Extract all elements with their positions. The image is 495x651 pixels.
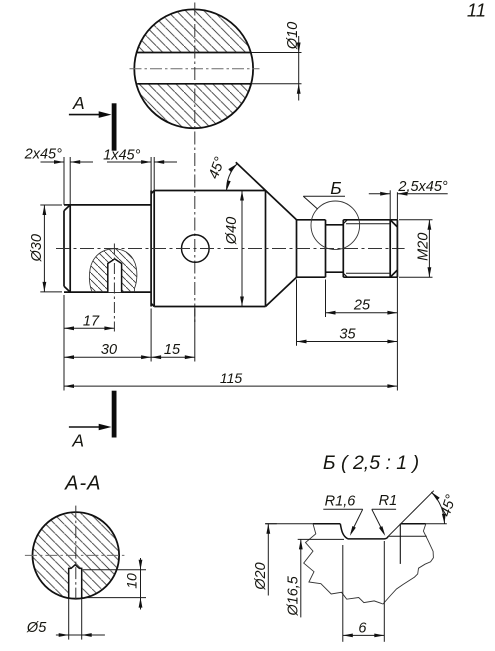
hole d5 slot white	[69, 565, 82, 599]
thread root bottom thin line	[346, 272, 390, 274]
dim 2x45: extension lines	[63, 157, 65, 205]
dim 35	[297, 341, 398, 343]
groove bottom surface	[326, 271, 344, 273]
d40 top edge	[154, 190, 265, 192]
groove right wall / thread start	[342, 220, 344, 277]
thread full-depth boundary	[399, 524, 401, 564]
R1 leader	[372, 508, 396, 510]
extension line step down	[150, 309, 152, 362]
svg-text:30: 30	[101, 342, 117, 358]
shaft end circle	[134, 9, 253, 128]
left end face	[63, 211, 65, 287]
chamfer 2x45 edge line	[69, 205, 71, 292]
dim d30 line	[43, 205, 45, 292]
svg-text:17: 17	[83, 313, 100, 329]
view arrow top	[69, 114, 101, 116]
chamfer 2x45 bottom diagonal	[64, 286, 70, 292]
groove top surface	[326, 224, 344, 226]
dim 25	[326, 312, 398, 314]
svg-text:11: 11	[467, 0, 486, 21]
chamfer 45 line extended	[388, 491, 434, 537]
hatch upper	[134, 9, 255, 52]
hole d5 slot outline	[69, 565, 82, 598]
main axis center line	[56, 248, 405, 250]
dim 17	[64, 327, 114, 329]
svg-text:Ø30: Ø30	[29, 234, 45, 262]
svg-text:A: A	[72, 93, 85, 113]
top surface left (d20)	[313, 523, 340, 525]
hole d5 white	[108, 259, 122, 292]
d20 dim extension thin part	[265, 523, 313, 525]
hatch A-A	[32, 512, 120, 600]
dim 15	[151, 356, 195, 358]
d20 bottom edge	[297, 276, 326, 278]
d40 bottom edge	[154, 306, 265, 308]
cutting plane thick stroke top	[112, 103, 117, 150]
thread crest top	[343, 219, 397, 221]
dim M20 extension lines	[399, 219, 433, 221]
cone small end edge	[296, 220, 298, 277]
thread end face	[396, 220, 398, 277]
detail circle B	[311, 201, 360, 250]
dim d16,5 line	[300, 539, 302, 617]
hatch of broken-out section	[86, 246, 140, 293]
thread crest bottom	[343, 276, 397, 278]
svg-text:R1: R1	[379, 493, 398, 509]
center line vertical shared	[194, 3, 196, 326]
hole d5 projection lines	[68, 598, 70, 639]
dim 45 arc detail	[431, 492, 444, 524]
dim 30	[64, 356, 151, 358]
svg-text:2,5x45°: 2,5x45°	[397, 179, 448, 195]
thread root top thin line	[346, 223, 390, 225]
d20 top edge	[297, 219, 326, 221]
thread end chamfer bottom diagonal	[390, 270, 397, 277]
hole edge upper	[137, 52, 251, 54]
dim 1x45 extension lines	[150, 157, 152, 191]
thread start chamfer top diagonal	[343, 220, 347, 224]
chamfer 2x45 top diagonal	[64, 205, 70, 211]
thread end chamfer top diagonal	[390, 220, 397, 227]
dim M20 line	[428, 220, 430, 277]
chamfer 1x45 edge line	[153, 191, 155, 307]
svg-text:Б ( 2,5 : 1 ): Б ( 2,5 : 1 )	[323, 452, 419, 474]
svg-text:1x45°: 1x45°	[103, 147, 140, 163]
dim d5 line	[56, 634, 105, 636]
svg-text:45°: 45°	[206, 155, 229, 181]
center line A-A horizontal	[25, 554, 127, 556]
break line blob	[89, 249, 137, 292]
groove left fillet R1,6	[340, 524, 348, 539]
dim 2,5x45 extension lines	[389, 190, 391, 220]
svg-text:2x45°: 2x45°	[24, 147, 62, 163]
thread start chamfer bottom diagonal	[343, 273, 347, 277]
svg-text:35: 35	[339, 326, 356, 342]
hole d5 outline	[108, 259, 122, 292]
hatch lower	[134, 84, 255, 129]
dim d10 line	[298, 36, 300, 101]
dim d20 extension	[265, 523, 277, 525]
svg-text:Ø5: Ø5	[26, 620, 47, 636]
center line horizontal top view	[130, 68, 260, 70]
svg-text:Б: Б	[330, 178, 341, 198]
dim d40 line	[241, 191, 243, 307]
svg-text:115: 115	[220, 370, 243, 386]
chamfer 1x45 top diagonal	[151, 191, 154, 194]
svg-text:10: 10	[123, 573, 139, 589]
dim 6 extension lines	[342, 545, 344, 642]
groove right fillet R1	[385, 536, 389, 539]
d30 bottom edge	[64, 291, 151, 293]
section circle A-A	[33, 512, 120, 599]
d30 top edge	[64, 204, 151, 206]
label B leader	[303, 195, 345, 197]
hole edge lower	[137, 83, 251, 85]
dim 10 line	[140, 558, 142, 610]
crest line right	[401, 523, 426, 525]
dim 45 arc	[227, 164, 238, 191]
thread end chamfer edge	[389, 220, 391, 277]
center line A-A vertical	[75, 506, 77, 602]
dim 115	[64, 385, 397, 387]
extension line lower	[252, 83, 302, 85]
svg-text:15: 15	[164, 342, 181, 358]
surface hole d10 circle on d40	[182, 235, 210, 263]
hole d5 center line	[113, 244, 115, 332]
dim 10 extension lines	[83, 569, 146, 571]
svg-text:6: 6	[358, 621, 367, 637]
svg-text:A-A: A-A	[64, 473, 101, 495]
svg-text:Ø40: Ø40	[224, 217, 240, 245]
dim 6 line	[343, 634, 385, 636]
dim 1x45 arrows	[107, 161, 151, 163]
svg-text:45°: 45°	[438, 493, 460, 519]
cone bottom line	[266, 277, 297, 306]
dim d16,5 extension	[298, 538, 344, 540]
dim 2x45 arrows	[41, 161, 65, 163]
svg-text:25: 25	[353, 298, 371, 314]
crest extension right for 45 arc	[426, 523, 447, 525]
extension line left end down	[63, 295, 65, 391]
view arrow bottom	[69, 426, 101, 428]
break line freehand	[304, 524, 434, 604]
groove bottom	[348, 538, 385, 540]
svg-text:M20: M20	[415, 233, 431, 261]
thread root line detail	[388, 535, 427, 537]
step face d30/d40	[150, 191, 152, 307]
R1,6 leader	[323, 508, 362, 510]
extension line groove down	[325, 280, 327, 318]
svg-text:Ø10: Ø10	[285, 22, 301, 50]
dim 2,5x45 arrows	[369, 193, 390, 195]
cone top line extended for 45 dim	[236, 162, 297, 220]
svg-text:R1,6: R1,6	[325, 493, 357, 509]
cone base edge	[265, 191, 267, 307]
svg-text:A: A	[71, 431, 84, 451]
extension line cone end down	[296, 280, 298, 346]
extension line upper	[252, 52, 302, 54]
chamfer 1x45 bottom diagonal	[151, 303, 154, 306]
extension line hole axis down	[194, 309, 196, 362]
dim d20 line	[267, 524, 269, 596]
dim d30: extension lines	[40, 204, 62, 206]
svg-text:Ø16,5: Ø16,5	[286, 575, 302, 616]
cutting plane thick stroke bottom	[112, 391, 117, 438]
svg-text:Ø20: Ø20	[253, 562, 269, 590]
groove left wall	[325, 220, 327, 277]
